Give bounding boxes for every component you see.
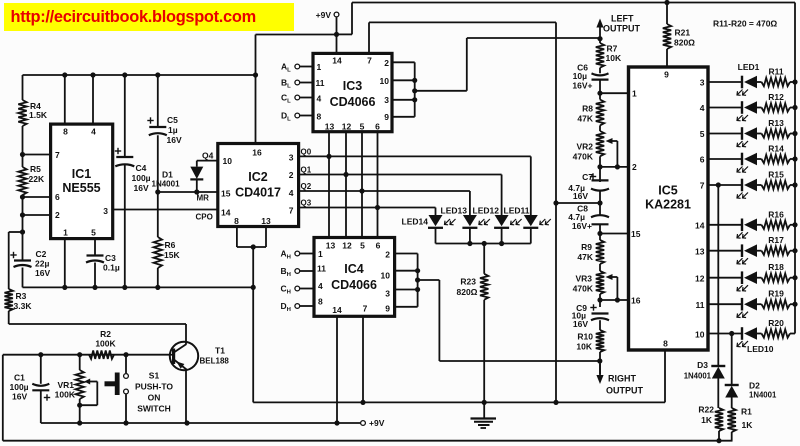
svg-text:BEL188: BEL188 [200,357,230,366]
svg-text:T1: T1 [215,346,225,356]
svg-text:5: 5 [360,122,365,132]
svg-text:3: 3 [700,78,705,88]
svg-text:15K: 15K [164,250,180,260]
resistor R5 [18,155,45,198]
wire right LED rail [794,3,796,334]
svg-text:CPO: CPO [196,213,213,222]
LED11 [504,156,551,243]
capacitor C6 [572,63,608,100]
svg-text:13: 13 [261,216,271,226]
node DL input [281,111,313,123]
wire IC1 pin8 up [64,75,66,124]
resistor R8 [577,100,604,126]
svg-text:15: 15 [221,189,231,199]
svg-text:R16: R16 [768,209,784,219]
wire +9V bus to IC1 [23,74,256,76]
wire IC1 pin2 [20,197,51,218]
svg-text:R1: R1 [741,407,752,417]
svg-text:LED13: LED13 [441,206,468,216]
svg-text:R9: R9 [581,242,592,252]
wire IC3 pin12 to IC4 [343,132,348,239]
svg-text:R8: R8 [582,104,593,114]
svg-text:100µ: 100µ [10,382,29,392]
wire IC3 pin7 gnd loop [369,22,559,402]
node BH input [281,266,315,278]
svg-text:10K: 10K [576,342,592,352]
svg-text:R6: R6 [165,240,176,250]
svg-text:C5: C5 [167,115,178,125]
svg-text:+9V: +9V [369,418,385,428]
capacitor C1 [10,352,51,423]
svg-text:LED12: LED12 [473,206,500,216]
svg-text:100K: 100K [55,390,76,400]
LED2 with resistor R12 [708,92,798,121]
svg-text:3: 3 [289,153,294,163]
LED12 [473,175,522,244]
wire C7/C8 to IC3 gnd [556,200,603,205]
svg-text:KA2281: KA2281 [645,198,691,212]
svg-text:9: 9 [384,112,389,122]
svg-text:NE555: NE555 [62,181,100,195]
wire IC4 pin14 to +9V [334,316,339,425]
wire IC5 pin15 [600,233,629,235]
resistor R10 [576,330,604,352]
svg-text:R12: R12 [768,92,784,102]
svg-text:OUTPUT: OUTPUT [606,386,644,396]
wire IC1 pin6 [20,194,51,199]
svg-text:12: 12 [342,241,352,251]
capacitor C4 [115,75,151,287]
svg-text:MR: MR [197,194,210,203]
wire IC1 pin7 [20,152,51,157]
resistor R7 [596,39,622,68]
wire right output link [597,358,602,363]
svg-text:LED1: LED1 [738,62,760,72]
svg-text:R23: R23 [460,277,476,287]
svg-text:22µ: 22µ [35,259,49,269]
svg-text:3: 3 [384,95,389,105]
junction IC3 gnd chain [553,400,558,405]
svg-text:16V: 16V [573,191,588,201]
capacitor C2 [10,232,50,287]
LED7 with resistor R17 [708,235,798,264]
resistor R21 [663,3,695,68]
switch S1 [105,352,174,426]
node +9V bottom terminal [361,418,385,428]
svg-text:R10: R10 [577,332,593,342]
pot VR2 470K [573,125,620,169]
svg-text:OUTPUT: OUTPUT [603,24,641,34]
svg-text:47K: 47K [577,114,593,124]
LED1 with resistor R11 [708,62,798,95]
node +9V top terminal [316,10,339,53]
resistor R6 [154,237,181,287]
LED3 with resistor R13 [708,118,798,147]
svg-text:2: 2 [632,162,637,172]
svg-text:6: 6 [55,192,60,202]
diode D3 1N4001 [684,360,726,408]
ground [471,402,497,428]
wire left frame [2,355,4,441]
node BL input [281,78,313,90]
svg-text:100µ: 100µ [132,173,151,183]
svg-text:R13: R13 [768,118,784,128]
svg-text:Q3: Q3 [301,199,312,208]
junction C5 bus [155,72,160,77]
svg-text:5: 5 [360,241,365,251]
svg-text:820Ω: 820Ω [674,38,695,48]
svg-text:R11-R20 = 470Ω: R11-R20 = 470Ω [713,19,777,29]
svg-text:IC2: IC2 [248,170,268,184]
svg-text:IC5: IC5 [658,184,678,198]
svg-text:10K: 10K [606,53,622,63]
svg-text:1K: 1K [742,420,754,430]
wire IC3 pin5 to IC4 [359,132,364,239]
svg-text:13: 13 [326,241,336,251]
svg-text:5: 5 [91,228,96,238]
wire Q4 from IC2 pin10 [197,151,218,167]
svg-text:C3: C3 [105,253,116,263]
node RIGHT OUTPUT [596,352,643,396]
svg-text:470K: 470K [573,152,594,162]
op-amp IC1 NE555 [51,124,113,239]
svg-text:R2: R2 [100,329,111,339]
junction IC2 pin16 bus [253,72,258,77]
svg-text:8: 8 [318,297,323,307]
resistor R1 [728,407,754,441]
wire IC1 pin3 to IC2 pin14 [113,209,218,211]
wire pin10 to D2 [731,334,733,386]
svg-text:ON: ON [148,393,161,403]
svg-text:RIGHT: RIGHT [608,374,637,384]
svg-text:R17: R17 [768,235,784,245]
analog switch IC4 CD4066 [314,238,395,317]
capacitor C7 [568,172,609,203]
svg-text:7: 7 [363,304,368,314]
capacitor C3 [86,239,120,288]
svg-text:14: 14 [695,221,705,231]
wire LED cathode bus [436,241,531,246]
svg-text:D3: D3 [697,360,708,370]
svg-text:8: 8 [663,339,668,349]
svg-text:http://ecircuitbook.blogspot.c: http://ecircuitbook.blogspot.com [11,8,256,26]
resistor R22 [698,405,723,444]
counter IC2 CD4017 [218,144,299,227]
wire main ground rail [253,350,665,402]
svg-text:C1: C1 [14,373,25,383]
svg-text:1K: 1K [701,415,713,425]
svg-text:1: 1 [318,249,323,259]
LED10 with resistor R20 [708,318,795,354]
svg-text:6: 6 [700,155,705,165]
svg-text:10: 10 [381,271,391,281]
LED9 with resistor R19 [708,289,798,318]
svg-text:13: 13 [695,247,705,257]
svg-text:1µ: 1µ [168,125,178,135]
svg-text:1N4001: 1N4001 [684,372,712,381]
svg-text:8: 8 [63,127,68,137]
wire IC3 outputs tie [392,62,417,117]
svg-text:8: 8 [234,216,239,226]
svg-text:4: 4 [700,103,705,113]
junction C4 bus [122,72,127,77]
svg-text:3: 3 [103,206,108,216]
svg-text:R3: R3 [16,291,27,301]
svg-text:2: 2 [384,58,389,68]
svg-text:11: 11 [316,78,325,88]
svg-text:R18: R18 [768,262,784,272]
junction C3 bus [92,285,97,290]
svg-text:9: 9 [385,304,390,314]
svg-text:R19: R19 [768,289,784,299]
svg-text:10: 10 [223,156,233,166]
wire pin7 to D3 [717,185,719,366]
svg-text:R11: R11 [768,67,783,77]
svg-text:CD4066: CD4066 [331,278,377,292]
junction pin1 bus [62,285,67,290]
svg-text:12: 12 [342,122,352,132]
wire IC5 pin16 [597,294,628,307]
svg-text:IC1: IC1 [72,167,92,181]
svg-text:LED11: LED11 [504,206,530,216]
wire MR [155,189,218,202]
banner [4,3,294,31]
svg-text:11: 11 [317,264,326,274]
LED6 with resistor R16 [708,209,798,238]
wire bottom rail [3,440,733,442]
svg-text:7: 7 [367,56,372,66]
svg-text:2: 2 [55,210,60,220]
svg-text:470K: 470K [573,284,594,294]
wire IC4 outputs tie [395,254,421,307]
svg-text:16V: 16V [573,319,588,329]
node LEFT OUTPUT [596,14,640,42]
wire IC2 pin16 up [256,35,337,144]
wire +9V to top rail [337,3,353,35]
svg-text:3.3K: 3.3K [14,301,33,311]
svg-text:16: 16 [252,148,262,158]
svg-text:VR2: VR2 [576,142,593,152]
wire IC3 pin6 to IC4 [375,132,380,239]
svg-text:R22: R22 [698,405,714,415]
wire Q0 [299,148,531,157]
wire Q1 [299,166,502,175]
svg-text:6: 6 [376,241,381,251]
svg-text:CD4066: CD4066 [330,95,376,109]
svg-text:10: 10 [380,76,390,86]
svg-text:0.1µ: 0.1µ [103,263,120,273]
svg-text:1: 1 [632,89,637,99]
svg-text:R20: R20 [768,318,784,328]
capacitor C5 [147,75,182,237]
junction IC5 pin7 [716,182,721,187]
driver IC5 KA2281 [629,67,709,350]
wire IC3 pin13 to IC4 [326,132,331,239]
svg-text:Q1: Q1 [301,166,312,175]
svg-text:LED14: LED14 [402,217,429,227]
svg-text:47K: 47K [577,252,593,262]
junction pin4 bus [90,72,95,77]
svg-text:1: 1 [317,62,322,72]
junction pin8 bus [62,72,67,77]
svg-text:CD4017: CD4017 [235,186,281,200]
LED14 [402,208,456,244]
svg-text:16V: 16V [167,135,182,145]
capacitor C9 [572,303,609,330]
svg-text:LED10: LED10 [747,344,774,354]
LED8 with resistor R18 [708,262,798,291]
svg-text:16V: 16V [12,392,27,402]
svg-text:14: 14 [332,56,342,66]
svg-text:4: 4 [317,94,322,104]
svg-text:16V: 16V [35,268,50,278]
svg-text:+9V: +9V [316,10,332,20]
label R11-R20 note [713,19,777,29]
svg-text:6: 6 [375,122,380,132]
wire Q3 [299,199,436,208]
node CH input [281,284,315,296]
wire IC1 pin1 down [64,239,66,288]
svg-text:4: 4 [289,188,294,198]
resistor R3 [5,232,33,324]
svg-text:9: 9 [664,70,669,80]
svg-text:2: 2 [385,250,390,260]
svg-text:SWITCH: SWITCH [137,404,171,414]
diode D1 1N4001 [152,167,204,192]
svg-text:VR3: VR3 [575,274,592,284]
svg-text:100K: 100K [95,339,116,349]
junction gnd symbol [482,400,487,405]
svg-text:R5: R5 [30,164,41,174]
svg-text:7: 7 [700,181,705,191]
svg-text:10: 10 [695,330,705,340]
svg-text:PUSH-TO: PUSH-TO [135,382,173,392]
pot VR1 100K [55,352,98,426]
wire switch top rail [3,354,170,356]
wire IC4 pin7 to ground [360,316,365,405]
resistor R9 [577,240,604,264]
capacitor C8 [568,203,609,240]
svg-text:Q2: Q2 [301,182,312,191]
svg-text:15: 15 [631,229,641,239]
svg-text:820Ω: 820Ω [457,287,478,297]
wire IC5 pin1 [600,92,629,94]
node CL input [281,93,313,105]
svg-text:3: 3 [385,289,390,299]
svg-text:D1: D1 [162,170,173,180]
svg-text:LEFT: LEFT [611,14,634,24]
svg-text:5: 5 [700,129,705,139]
node AL input [281,62,313,74]
svg-text:R21: R21 [675,28,691,38]
svg-text:11: 11 [696,300,705,310]
node R3/C2 tee [9,215,25,235]
svg-text:R15: R15 [768,170,784,180]
svg-text:16V+: 16V+ [572,221,592,231]
wire top +9V rail [352,0,795,5]
svg-text:16: 16 [631,296,641,306]
svg-text:1: 1 [63,228,68,238]
LED5 with resistor R15 [708,170,798,199]
pot VR3 470K [573,264,620,303]
wire IC3 out to left output [415,38,600,91]
wire IC4 out to right output [418,280,600,361]
svg-text:Q4: Q4 [202,151,214,161]
node DH input [281,301,315,313]
svg-text:12: 12 [695,274,705,284]
svg-text:IC4: IC4 [344,262,364,276]
svg-text:22K: 22K [29,174,45,184]
resistor R4 [18,75,48,155]
wire IC5 pin2 [597,156,628,182]
wire R3 to T1 collector [9,324,186,342]
wire lower bus [23,286,254,288]
svg-text:VR1: VR1 [57,380,74,390]
svg-text:S1: S1 [149,371,160,381]
svg-text:16V: 16V [134,183,149,193]
svg-text:4: 4 [91,127,96,137]
wire IC1 pin4 up [92,75,94,124]
svg-text:4: 4 [318,281,323,291]
resistor R2 [89,329,117,359]
wire switch bottom rail [41,420,360,425]
LED4 with resistor R14 [708,144,798,173]
svg-text:R7: R7 [607,44,618,54]
svg-text:14: 14 [332,305,342,315]
junction C4 bus [122,285,127,290]
analog switch IC3 CD4066 [313,53,392,131]
junction IC5 pin10 [729,331,734,336]
wire Q2 [299,182,470,191]
LED13 [441,191,490,244]
svg-text:14: 14 [221,208,231,218]
svg-text:8: 8 [317,112,322,122]
svg-text:C4: C4 [136,163,147,173]
resistor R23 [457,244,489,403]
svg-text:IC3: IC3 [343,79,363,93]
svg-text:2: 2 [289,170,294,180]
svg-text:1N4001: 1N4001 [749,391,777,400]
svg-text:C2: C2 [36,249,47,259]
svg-text:Q0: Q0 [301,148,312,157]
node AH input [281,249,315,261]
svg-text:13: 13 [325,122,335,132]
svg-text:1N4001: 1N4001 [152,180,181,189]
svg-text:7: 7 [289,206,294,216]
transistor T1 BEL188 [170,342,230,423]
label CPO [196,213,213,222]
diode D2 1N4001 [725,381,777,409]
svg-text:16V+: 16V+ [572,81,592,91]
junction R6 bus [155,285,160,290]
svg-text:7: 7 [55,150,60,160]
svg-text:1.5K: 1.5K [29,110,48,120]
wire IC2 pins8+13 to ground rail [237,227,266,403]
svg-text:D2: D2 [749,381,760,391]
svg-text:R14: R14 [768,144,784,154]
svg-text:10µ: 10µ [573,71,587,81]
